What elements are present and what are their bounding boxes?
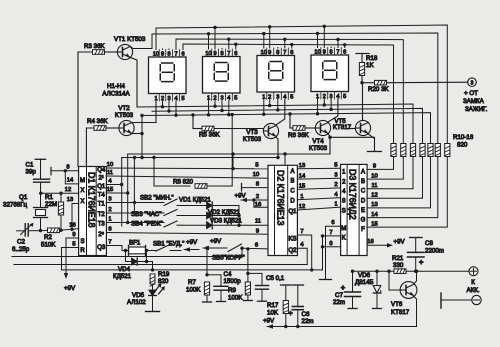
svg-text:12: 12 bbox=[299, 204, 305, 210]
bus wire L1 bbox=[12, 256, 242, 258]
svg-text:+: + bbox=[288, 311, 292, 318]
resistor R2 bbox=[41, 228, 79, 248]
svg-text:H1-H4: H1-H4 bbox=[107, 83, 125, 90]
svg-text:+ ОТ: + ОТ bbox=[464, 90, 478, 97]
svg-text:КД521: КД521 bbox=[113, 273, 132, 280]
svg-text:2: 2 bbox=[108, 207, 111, 213]
label C8 bbox=[425, 240, 444, 255]
svg-text:АКК.: АКК. bbox=[466, 287, 479, 294]
switch SB4 bbox=[162, 221, 181, 227]
svg-text:5: 5 bbox=[255, 163, 258, 169]
svg-text:F: F bbox=[361, 227, 365, 233]
R7 C4 node bbox=[205, 248, 221, 276]
transistor VT1 bbox=[117, 44, 132, 59]
diode VD1 bbox=[181, 202, 239, 209]
switch SB5 bbox=[228, 244, 268, 252]
svg-text:SB4 "РЕЖ": SB4 "РЕЖ" bbox=[131, 221, 163, 228]
svg-text:6: 6 bbox=[181, 51, 184, 57]
resistor R9 bbox=[243, 273, 252, 300]
svg-text:KT503: KT503 bbox=[309, 145, 328, 152]
diode common vertical bbox=[237, 206, 240, 227]
digit bus wire 3 bbox=[142, 112, 431, 143]
wire T-link 1 bbox=[126, 152, 330, 224]
label VD5 bbox=[127, 292, 146, 306]
zener VD6 bbox=[373, 270, 382, 309]
svg-text:C7: C7 bbox=[335, 292, 343, 299]
svg-text:7: 7 bbox=[227, 51, 230, 57]
svg-text:8: 8 bbox=[256, 182, 259, 188]
svg-text:7: 7 bbox=[108, 240, 111, 246]
svg-text:8: 8 bbox=[220, 51, 223, 57]
svg-text:R20 3K: R20 3K bbox=[368, 86, 390, 93]
bus D stubs bbox=[236, 44, 345, 49]
segment bus wire B bbox=[152, 32, 438, 144]
D1 pin 11 wire bbox=[106, 170, 268, 178]
wire T-link 1 drop bbox=[284, 154, 286, 165]
svg-text:10K: 10K bbox=[267, 310, 279, 317]
svg-text:G: G bbox=[361, 218, 366, 224]
svg-text:1: 1 bbox=[334, 201, 337, 207]
D2 pin 2 wire +9V bbox=[235, 193, 269, 203]
label VD6 bbox=[355, 272, 374, 286]
wire R6 riser bbox=[288, 112, 291, 128]
svg-text:X: X bbox=[80, 188, 84, 194]
diode VD4 bbox=[126, 251, 153, 266]
svg-text:12: 12 bbox=[371, 192, 377, 198]
svg-text:6..25p: 6..25p bbox=[12, 246, 30, 253]
svg-text:13: 13 bbox=[299, 163, 305, 169]
D1 pin 12 wire bbox=[39, 187, 79, 195]
display bottom pin stubs bbox=[163, 99, 332, 115]
label SB3 bbox=[131, 211, 161, 218]
SB5 drop bbox=[241, 248, 243, 256]
D2 pin 16 wire bbox=[254, 200, 268, 208]
switch SB3 bbox=[162, 210, 181, 216]
switch SB1 bbox=[124, 245, 181, 253]
svg-text:ЗАМКА: ЗАМКА bbox=[463, 98, 485, 105]
label R9 bbox=[228, 287, 243, 302]
svg-text:16: 16 bbox=[367, 239, 373, 245]
svg-text:2200m: 2200m bbox=[425, 248, 444, 255]
svg-text:7: 7 bbox=[174, 51, 177, 57]
svg-text:7: 7 bbox=[283, 50, 286, 56]
transistor VT2 bbox=[119, 120, 134, 135]
label Q1 bbox=[3, 194, 28, 209]
battery rail bbox=[353, 270, 470, 272]
wire left rail R3 bbox=[77, 52, 79, 167]
D1 pin 8 wire bbox=[51, 165, 79, 175]
svg-text:T2: T2 bbox=[98, 212, 106, 218]
svg-text:11: 11 bbox=[107, 170, 113, 176]
svg-text:6: 6 bbox=[234, 51, 237, 57]
wire VT2 collector bbox=[132, 101, 156, 123]
capacitor C5 bbox=[256, 273, 269, 301]
svg-text:1: 1 bbox=[108, 217, 111, 223]
svg-text:1K: 1K bbox=[366, 62, 374, 69]
svg-text:14: 14 bbox=[299, 173, 306, 179]
wire VT6 base bbox=[387, 270, 400, 291]
svg-text:KT503: KT503 bbox=[115, 112, 134, 119]
svg-text:D: D bbox=[290, 199, 295, 205]
svg-text:12: 12 bbox=[65, 187, 71, 193]
D2 pin 5 wire bbox=[233, 154, 259, 169]
svg-text:KT503: KT503 bbox=[243, 136, 262, 143]
wire VT4 emitter bbox=[328, 134, 382, 154]
D1 pin 9 wire (S) bbox=[64, 232, 79, 292]
+9V arrow at SB1 bbox=[184, 239, 199, 252]
svg-text:VD5: VD5 bbox=[132, 292, 145, 299]
svg-text:VD1 КД521: VD1 КД521 bbox=[179, 197, 211, 204]
svg-text:2⁵: 2⁵ bbox=[98, 231, 104, 238]
svg-text:R2: R2 bbox=[44, 234, 52, 241]
svg-text:100K: 100K bbox=[228, 295, 243, 302]
wire VT2 emitter bbox=[132, 132, 144, 135]
SB5 +9V arrow bbox=[203, 238, 227, 250]
svg-text:9: 9 bbox=[72, 232, 75, 238]
D1 pin 5 wire (R) bbox=[62, 242, 79, 270]
segment bus wire C bbox=[176, 37, 403, 143]
wire VT3 emitter bbox=[276, 137, 278, 158]
svg-text:BF1: BF1 bbox=[129, 240, 141, 247]
svg-text:M: M bbox=[341, 226, 346, 232]
label R17 bbox=[267, 302, 279, 317]
svg-text:C8: C8 bbox=[425, 240, 433, 247]
label VD4 bbox=[113, 266, 132, 280]
svg-text:8: 8 bbox=[329, 241, 332, 247]
svg-text:АЛ102: АЛ102 bbox=[127, 299, 146, 306]
svg-text:7: 7 bbox=[329, 230, 332, 236]
bus wire KS net bbox=[62, 268, 323, 271]
D2 pin 7 wire (KS) bbox=[297, 229, 311, 270]
label R7 bbox=[186, 279, 201, 294]
svg-text:9: 9 bbox=[256, 229, 259, 235]
label SB4 bbox=[131, 221, 163, 228]
D1 pin 7 wire (Q3) bbox=[106, 240, 122, 251]
label VD3 bbox=[210, 218, 242, 225]
label R21 bbox=[392, 255, 404, 269]
svg-text:13: 13 bbox=[67, 197, 73, 203]
label SB2 bbox=[140, 195, 174, 202]
D3 pin M wire bbox=[320, 220, 341, 280]
svg-text:R21: R21 bbox=[392, 255, 404, 262]
label H1-H4 АЛС314А bbox=[102, 83, 130, 98]
label C1 bbox=[26, 162, 37, 176]
svg-text:7: 7 bbox=[336, 49, 339, 55]
svg-text:6: 6 bbox=[343, 49, 346, 55]
D1 pin 16 wire bbox=[69, 223, 75, 229]
svg-text:SB3 "ЧАС": SB3 "ЧАС" bbox=[131, 211, 161, 218]
svg-text:39p: 39p bbox=[26, 169, 37, 176]
wire T-link 2 bbox=[120, 114, 280, 226]
capacitor C1 bbox=[34, 159, 50, 193]
svg-text:S: S bbox=[342, 208, 346, 214]
label R10-16 bbox=[453, 134, 474, 149]
svg-text:VD2 КД521: VD2 КД521 bbox=[208, 209, 240, 216]
D2 pin 8 wire bbox=[242, 182, 269, 192]
bottom +9V rail bbox=[263, 318, 417, 329]
label R4 bbox=[87, 118, 109, 125]
svg-text:10: 10 bbox=[205, 51, 211, 57]
label C7 bbox=[333, 292, 345, 306]
label ignition bbox=[463, 90, 488, 113]
diode VD3 to D2 pin 11 bbox=[181, 219, 268, 229]
svg-text:D2 К176ИЕ13: D2 К176ИЕ13 bbox=[275, 170, 285, 226]
D1 pin 6 wire bbox=[106, 227, 268, 235]
svg-text:9: 9 bbox=[268, 50, 271, 56]
7-segment indicator H1 bbox=[149, 50, 187, 102]
svg-text:B: B bbox=[361, 179, 365, 185]
svg-text:+9V: +9V bbox=[210, 238, 222, 245]
label VT1 bbox=[114, 36, 146, 43]
svg-text:KT817: KT817 bbox=[333, 124, 352, 131]
label VD1 bbox=[179, 197, 211, 204]
capacitor C4 bbox=[214, 275, 228, 302]
resistors R10-R16 bbox=[391, 144, 450, 157]
svg-text:+: + bbox=[341, 283, 346, 292]
svg-text:3: 3 bbox=[334, 172, 337, 178]
svg-text:A: A bbox=[361, 170, 365, 176]
wire VT1 emitter bbox=[131, 58, 138, 108]
svg-text:SB5"КОРР": SB5"КОРР" bbox=[212, 255, 245, 262]
D2 pin 4 wire (Q2) bbox=[297, 242, 307, 265]
svg-text:R: R bbox=[80, 248, 85, 254]
svg-text:Q2: Q2 bbox=[288, 248, 297, 254]
resistor R1 bbox=[58, 193, 63, 232]
resistor R21 bbox=[394, 269, 406, 274]
svg-text:8: 8 bbox=[330, 49, 333, 55]
wire VT3 collector bbox=[276, 100, 285, 126]
wire VT6 emitter bbox=[414, 297, 417, 327]
segment bus wire A bbox=[156, 25, 447, 144]
svg-text:9: 9 bbox=[213, 51, 216, 57]
svg-text:11: 11 bbox=[255, 219, 261, 225]
svg-text:22M: 22M bbox=[45, 201, 57, 208]
svg-text:C5 0,1: C5 0,1 bbox=[266, 275, 285, 282]
digit bus wire 2 bbox=[152, 108, 423, 144]
svg-text:C: C bbox=[361, 189, 366, 195]
label BF1 bbox=[129, 240, 141, 247]
svg-text:+9V: +9V bbox=[394, 239, 406, 246]
D2 pin 10 label bbox=[253, 172, 259, 178]
svg-text:13: 13 bbox=[371, 202, 377, 208]
svg-text:R18: R18 bbox=[366, 55, 378, 62]
svg-text:Q1: Q1 bbox=[288, 209, 297, 215]
svg-text:6: 6 bbox=[331, 220, 334, 226]
svg-text:R19: R19 bbox=[158, 271, 170, 278]
wire VT5 base bbox=[346, 128, 355, 130]
svg-text:10: 10 bbox=[371, 173, 377, 179]
svg-text:VT1 KT503: VT1 KT503 bbox=[114, 36, 146, 43]
resistor R5 bbox=[193, 126, 263, 131]
svg-text:9: 9 bbox=[323, 49, 326, 55]
svg-text:22m: 22m bbox=[302, 318, 314, 325]
svg-text:Q1: Q1 bbox=[19, 194, 28, 201]
wire VT4 collector bbox=[328, 99, 338, 122]
LED VD5 bbox=[149, 283, 165, 311]
bus A stubs bbox=[215, 26, 324, 49]
transistor VT4 bbox=[315, 120, 330, 135]
IC D2 К176ИЕ13 bbox=[268, 165, 297, 255]
svg-text:10: 10 bbox=[314, 49, 320, 55]
D1 pin 1 wire (T3) bbox=[106, 217, 162, 223]
svg-text:+9V: +9V bbox=[186, 239, 198, 246]
battery plus terminal bbox=[469, 267, 478, 276]
svg-text:S: S bbox=[80, 239, 84, 245]
svg-text:+9V: +9V bbox=[263, 318, 275, 325]
resistor R6 bbox=[290, 126, 315, 131]
svg-text:SB1 "БУД.": SB1 "БУД." bbox=[153, 241, 184, 248]
svg-text:5: 5 bbox=[343, 94, 346, 100]
svg-text:C6: C6 bbox=[302, 311, 310, 318]
D3 output pin numbers bbox=[371, 164, 378, 228]
svg-text:R9: R9 bbox=[228, 287, 236, 294]
svg-text:2¹: 2¹ bbox=[99, 176, 104, 182]
svg-text:2: 2 bbox=[256, 194, 259, 200]
svg-text:6: 6 bbox=[108, 227, 111, 233]
svg-text:R5 36K: R5 36K bbox=[199, 132, 221, 139]
D1 pin 10 wire bbox=[106, 162, 268, 170]
transistor VT6 bbox=[400, 282, 417, 299]
svg-text:8: 8 bbox=[66, 165, 69, 171]
svg-text:M: M bbox=[80, 178, 85, 184]
label R20 bbox=[368, 86, 390, 93]
resistor R20 bbox=[360, 80, 467, 85]
svg-text:510K: 510K bbox=[41, 241, 56, 248]
svg-text:АЛС314А: АЛС314А bbox=[102, 91, 130, 98]
crystal Q1 bbox=[34, 193, 48, 232]
svg-text:R3 36K: R3 36K bbox=[84, 43, 106, 50]
diode VD2 bbox=[181, 212, 239, 219]
D2 pin 6 label bbox=[255, 243, 258, 249]
svg-text:100K: 100K bbox=[186, 287, 201, 294]
wire VT6 collector bbox=[414, 270, 418, 284]
svg-text:K: K bbox=[342, 236, 346, 242]
svg-text:10: 10 bbox=[253, 172, 259, 178]
svg-text:9: 9 bbox=[373, 164, 376, 170]
svg-text:15: 15 bbox=[371, 221, 377, 227]
svg-text:T4: T4 bbox=[98, 193, 106, 199]
svg-text:6: 6 bbox=[290, 50, 293, 56]
transistor VT5 bbox=[355, 120, 370, 135]
svg-text:R6 36K: R6 36K bbox=[288, 132, 310, 139]
svg-text:3: 3 bbox=[108, 197, 111, 203]
svg-text:+9V: +9V bbox=[235, 193, 247, 200]
D2 pin 9 label bbox=[256, 229, 259, 235]
label SB1 bbox=[153, 241, 184, 248]
svg-text:VT4: VT4 bbox=[312, 138, 324, 145]
svg-text:3: 3 bbox=[471, 81, 474, 87]
svg-text:A: A bbox=[290, 169, 294, 175]
wires R10-16 to D3 outputs bbox=[367, 157, 447, 228]
svg-text:D: D bbox=[361, 198, 366, 204]
svg-text:KT817: KT817 bbox=[391, 309, 410, 316]
svg-text:1500p: 1500p bbox=[224, 278, 242, 285]
label R5 bbox=[199, 132, 221, 139]
label К АКК bbox=[466, 279, 479, 294]
label VT6 bbox=[391, 301, 410, 316]
svg-text:+9V: +9V bbox=[64, 285, 76, 292]
D3 pin K wires bbox=[321, 230, 341, 270]
svg-text:7: 7 bbox=[300, 229, 303, 235]
svg-text:R10-16: R10-16 bbox=[453, 134, 474, 141]
transistor VT3 bbox=[263, 123, 278, 138]
D1 pin 3 wire (T1) bbox=[106, 197, 162, 205]
svg-text:5: 5 bbox=[181, 96, 184, 102]
battery minus terminal bbox=[441, 293, 481, 308]
svg-text:14: 14 bbox=[371, 212, 378, 218]
IC D1 К176ИЕ18 bbox=[79, 167, 107, 256]
svg-text:D1 К176ИЕ18: D1 К176ИЕ18 bbox=[87, 172, 97, 228]
label C4 bbox=[224, 271, 242, 285]
svg-text:5: 5 bbox=[290, 94, 293, 100]
7-segment indicator H2 bbox=[203, 49, 241, 101]
svg-text:VT2: VT2 bbox=[118, 105, 130, 112]
svg-text:VD3 КД521: VD3 КД521 bbox=[210, 218, 242, 225]
svg-text:22m: 22m bbox=[333, 299, 345, 306]
svg-text:9: 9 bbox=[161, 51, 164, 57]
bus B stubs bbox=[209, 33, 318, 49]
resistor R19 bbox=[150, 262, 155, 291]
svg-text:C1: C1 bbox=[26, 162, 34, 169]
wire R5 riser bbox=[191, 113, 194, 128]
svg-text:KS: KS bbox=[288, 236, 296, 242]
svg-text:16: 16 bbox=[255, 202, 261, 208]
label VT2 bbox=[115, 105, 134, 119]
D1 pin 2 wire (T2) bbox=[106, 207, 162, 213]
capacitor C8 bbox=[408, 238, 425, 273]
resistor R18 bbox=[356, 54, 369, 83]
svg-text:330: 330 bbox=[393, 262, 404, 269]
label C6 bbox=[302, 311, 314, 325]
svg-text:ЗАЖИГ.: ЗАЖИГ. bbox=[465, 106, 488, 113]
wire VT1 collector bbox=[131, 47, 153, 49]
label R3 bbox=[84, 43, 106, 50]
svg-text:X: X bbox=[80, 199, 84, 205]
svg-text:C4: C4 bbox=[224, 271, 232, 278]
bus wire Q2 net bbox=[14, 264, 307, 266]
svg-text:32768Гц: 32768Гц bbox=[3, 202, 28, 209]
svg-text:VT3: VT3 bbox=[246, 129, 258, 136]
D3 pin 16 +9V bbox=[367, 239, 405, 248]
capacitor C7 bbox=[341, 270, 361, 309]
wire R4 left bbox=[86, 128, 94, 167]
svg-text:C2: C2 bbox=[17, 239, 25, 246]
bus C stubs bbox=[229, 39, 338, 49]
svg-text:10: 10 bbox=[107, 162, 113, 168]
svg-text:5: 5 bbox=[72, 242, 75, 248]
digit bus wire 1 bbox=[137, 103, 413, 143]
label R18 bbox=[366, 55, 378, 69]
label VT5 bbox=[333, 118, 352, 131]
svg-text:820: 820 bbox=[457, 142, 468, 149]
svg-text:T3: T3 bbox=[98, 222, 106, 228]
buzzer BF1 bbox=[122, 246, 154, 257]
svg-text:Q4: Q4 bbox=[97, 168, 106, 174]
svg-text:VD6: VD6 bbox=[358, 272, 371, 279]
capacitor C2 (trimmer) bbox=[12, 223, 41, 253]
capacitor C6 bbox=[288, 285, 303, 328]
svg-text:VT6: VT6 bbox=[391, 301, 403, 308]
terminal to ignition lock bbox=[468, 78, 477, 87]
wires D2 outputs to D3 inputs bbox=[297, 162, 340, 210]
label R1 bbox=[45, 194, 57, 208]
label VT4 bbox=[309, 138, 328, 152]
svg-text:SB2 "МИН.": SB2 "МИН." bbox=[140, 195, 174, 202]
svg-text:10: 10 bbox=[153, 51, 159, 57]
svg-text:R1: R1 bbox=[45, 194, 53, 201]
D1 pin 4 wire bbox=[106, 179, 121, 185]
svg-text:R7: R7 bbox=[188, 279, 196, 286]
